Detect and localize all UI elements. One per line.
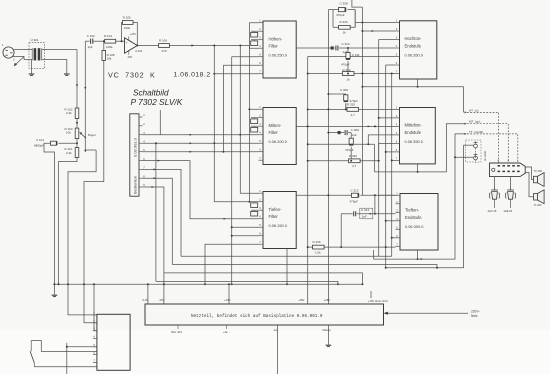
svg-text:470: 470: [162, 49, 167, 53]
resistor R110: [75, 148, 79, 158]
capacitor C308 470uF: [328, 1, 355, 16]
arrow TT: [465, 133, 467, 135]
resistor R326 parallel to C308: [333, 10, 355, 35]
transformer U301 shield dashed box: [29, 43, 45, 69]
socket circle upper: [473, 141, 477, 148]
resistor R336: [307, 240, 342, 254]
riser x231 down to bus: [231, 57, 233, 285]
wire mittelton pin7 stub: [392, 159, 395, 161]
svg-text:R 326: R 326: [340, 20, 348, 24]
svg-text:0.06.250.0: 0.06.250.0: [269, 53, 288, 58]
svg-text:+AL: +AL: [223, 330, 228, 334]
svg-text:+: +: [126, 41, 128, 45]
dashed drop sockets to connector: [475, 148, 477, 163]
power riser x391: [391, 74, 393, 257]
rail -28V x307 vertical: [307, 57, 309, 305]
connector pins dashes: [498, 166, 520, 172]
svg-text:0.06.150.0: 0.06.150.0: [269, 223, 288, 228]
rail +15V y264: [172, 265, 437, 268]
node R102 R103: [76, 119, 78, 129]
wire 220V mains with arrow: [387, 312, 468, 314]
wire leg x374 down to MT out: [374, 144, 376, 172]
connector speaker strip Bu301: [490, 163, 526, 177]
netzteil bottom stub +AL: [226, 325, 228, 329]
svg-text:Endstufe: Endstufe: [405, 44, 422, 49]
ground at transformer primary: [31, 72, 33, 74]
wire connector to transformer primary: [14, 49, 32, 51]
svg-text:HT (rt): HT (rt): [469, 108, 479, 112]
bus 0V horizontal: [54, 283, 362, 285]
rail +28V x328 vertical: [327, 10, 329, 304]
wire R106 to hoehen filter pin4: [170, 46, 259, 49]
wire bus to bottom block pin2: [84, 284, 97, 323]
wire bedienteil pin7 staircase to rail -15V: [143, 169, 182, 256]
wire hochton pin5 row from -28V rail: [308, 56, 395, 58]
transformer U301 windings: [32, 48, 43, 60]
svg-text:-28V: -28V: [299, 298, 305, 302]
wire tiefen pin7 to bus riser: [205, 244, 259, 284]
svg-text:470µF: 470µF: [336, 13, 345, 17]
svg-text:C 101: C 101: [36, 138, 44, 142]
connector Bu101 DIN input socket: [2, 43, 15, 62]
node op-amp output: [136, 45, 138, 47]
wire R110 bottom jog left down to bus: [59, 158, 78, 285]
block Bedienteil 0.03.001.0: [130, 114, 139, 196]
wire output to R106: [137, 45, 158, 47]
node R108 top: [103, 40, 105, 42]
svg-text:4,7: 4,7: [351, 113, 356, 117]
shield arrow at input connector: [14, 57, 24, 67]
bus ground stub: [53, 284, 55, 293]
ground at netzteil Masse: [327, 343, 329, 345]
mitten filter pins 1-7: [259, 105, 264, 160]
wire hochton pin2 row: [362, 30, 395, 32]
svg-text:an Gerät: an Gerät: [483, 151, 487, 161]
svg-text:C 308: C 308: [340, 1, 348, 5]
mitten filter trimmers: [251, 118, 259, 132]
svg-text:TC 250: TC 250: [534, 169, 543, 173]
svg-text:+15V: +15V: [130, 32, 136, 36]
capacitor C102: [90, 39, 92, 44]
wire connector lower pin: [13, 57, 32, 60]
netzteil stub 0V: [147, 284, 149, 304]
wire R108 rail jog left down to bus: [84, 60, 104, 284]
block bottom left: [97, 314, 130, 370]
svg-text:Tiefen-: Tiefen-: [269, 207, 282, 212]
node filter input riser: [239, 45, 241, 47]
block Hoehen-Filter 0.06.250.0: [263, 21, 296, 78]
netzteil bottom wire -AL: [277, 325, 279, 374]
socket circle lower: [473, 153, 477, 160]
mittelton pins 1-7: [395, 105, 400, 160]
resistor R325 on pin1 row: [347, 102, 359, 117]
riser x223 down: [222, 65, 224, 152]
svg-text:470µF: 470µF: [345, 148, 354, 152]
svg-text:TT (ws/bl): TT (ws/bl): [469, 130, 483, 134]
wire tiefen cluster left leg: [340, 214, 342, 247]
rail y272: [164, 273, 363, 284]
riser x249 hoehen pin1 to mitten pin1: [249, 23, 258, 110]
wire junction to C101: [59, 142, 78, 144]
block Tiefton-Endstufe 0.06.300.0: [400, 194, 438, 251]
wire C308 node to hochton pin1: [355, 22, 395, 24]
wire bedienteil pin3 to mitten pin4: [143, 134, 259, 136]
svg-text:Netzteil, befindet sich auf B: Netzteil, befindet sich auf Basisplatine…: [191, 314, 323, 319]
svg-text:C 309: C 309: [351, 128, 359, 132]
arrow MT: [465, 123, 467, 125]
wire riser to mittelton pin4: [368, 135, 395, 144]
wire bedienteil pin5 to mitten pin6: [143, 151, 259, 153]
tiefen filter pins 1-7: [259, 189, 264, 244]
netzteil bottom stub Bat301: [177, 325, 179, 329]
svg-text:+15V Verst. Drtzt: +15V Verst. Drtzt: [368, 299, 388, 303]
svg-text:1k: 1k: [347, 78, 351, 82]
arrow on left rail: [76, 84, 78, 87]
riser x249 mitten to tiefen trimmer row: [248, 109, 250, 202]
wire HT output run: [362, 87, 463, 113]
svg-text:1µF: 1µF: [352, 133, 357, 137]
svg-text:-15V: -15V: [159, 298, 165, 302]
riser x214 signal to tiefen pin2: [214, 46, 251, 202]
resistor R108: [102, 50, 106, 60]
svg-text:Filter: Filter: [269, 130, 279, 135]
resistor R340: [307, 154, 379, 168]
rail x362 vertical: [361, 7, 363, 195]
svg-text:C 311: C 311: [352, 53, 360, 57]
speaker HC capsule left: [489, 188, 499, 208]
resistor R322 on pin7 row: [342, 68, 354, 82]
arrow mitten row: [368, 125, 370, 127]
wire hoehen pin5 to riser x231: [232, 56, 259, 58]
capacitor C101: [51, 141, 57, 145]
svg-text:R 325: R 325: [347, 102, 355, 106]
svg-text:R 105: R 105: [123, 16, 131, 20]
power riser x385: [385, 65, 387, 268]
svg-text:1µF: 1µF: [88, 45, 93, 49]
svg-text:1,5k: 1,5k: [315, 251, 321, 255]
wire hoehen filter output row with C310: [296, 42, 395, 54]
capacitor C306 470uF vertical: [340, 88, 358, 109]
svg-text:2,2k: 2,2k: [66, 151, 72, 155]
rail y281: [156, 281, 338, 284]
node feedback tap: [121, 40, 123, 42]
svg-text:MT (gn): MT (gn): [469, 120, 480, 124]
svg-text:1k: 1k: [343, 31, 347, 35]
wire hochton output down: [417, 79, 419, 87]
svg-text:R 322: R 322: [343, 68, 351, 72]
riser from block corner to rail y281: [155, 143, 157, 281]
op-amp A101: [125, 32, 143, 59]
wire to capacitor C102: [85, 40, 89, 42]
svg-text:4,7: 4,7: [352, 164, 357, 168]
netzteil stub +15V: [228, 284, 230, 304]
capacitor C309 1uF: [327, 128, 359, 137]
netzteil stub -15V: [163, 273, 165, 304]
arrow HT: [465, 111, 467, 113]
wire primary bottom to ground: [31, 60, 33, 72]
wire tiefton pin6 stub: [392, 237, 396, 239]
svg-text:Tiefton-: Tiefton-: [405, 208, 420, 213]
hochton pins 1-7: [395, 19, 400, 74]
ground at transformer secondary: [66, 72, 68, 74]
svg-text:Bedienteil: Bedienteil: [132, 176, 137, 194]
svg-text:R 104: R 104: [104, 34, 112, 38]
wire tiefton pin1 from riser x378: [379, 194, 396, 196]
svg-text:A 101: A 101: [135, 49, 143, 53]
wire R105 to output: [133, 23, 137, 46]
wire bedienteil pin8 staircase to rail +15V: [143, 178, 173, 264]
arrow on signal wire: [191, 44, 194, 46]
wire leg under tiefton: [373, 250, 375, 259]
hoehen filter pins 1-7: [259, 19, 264, 74]
svg-text:R 106: R 106: [159, 39, 167, 43]
wire mitten row2 to mittelton pin4: [308, 143, 375, 145]
wire aux to block pin4: [67, 346, 97, 348]
svg-text:C 310: C 310: [342, 42, 350, 46]
dashed HT to connector: [467, 112, 499, 163]
svg-text:0.03.001.0: 0.03.001.0: [132, 137, 137, 157]
svg-text:Pegel: Pegel: [88, 133, 96, 137]
wire connector down leg 1: [494, 177, 496, 188]
wire hoehen pin6 to riser x223: [223, 64, 258, 66]
svg-text:0.06.350.0: 0.06.350.0: [405, 53, 424, 58]
capacitor C311 470uF vertical: [341, 48, 360, 74]
dashed TT to connector: [467, 134, 518, 163]
capacitor C312 470uF on tiefen output row: [296, 188, 395, 203]
rail masse y267 to speaker riser: [386, 145, 464, 268]
svg-text:100k: 100k: [124, 26, 131, 30]
node tiefen cluster: [340, 246, 342, 248]
speaker TC250: [534, 173, 545, 187]
svg-text:+28V: +28V: [324, 298, 331, 302]
svg-text:Filter: Filter: [269, 44, 279, 49]
leader line below subtitle: [159, 110, 161, 135]
svg-text:Netz: Netz: [471, 314, 478, 318]
svg-text:10k: 10k: [66, 131, 71, 135]
svg-text:470µF: 470µF: [350, 199, 359, 203]
wire bedienteil pin4 to mitten pin5: [143, 142, 259, 144]
block Mitten-Filter 0.06.200.0: [263, 108, 296, 165]
resistor R104: [105, 39, 116, 43]
wire mittelton pin1 row: [308, 108, 395, 110]
svg-text:-15V: -15V: [127, 55, 133, 59]
wire R104 top of R108: [103, 41, 105, 50]
svg-text:C 306: C 306: [340, 88, 348, 92]
svg-text:TL 200: TL 200: [534, 203, 543, 207]
ground at bus: [53, 293, 55, 295]
svg-text:0.06.350.0: 0.06.350.0: [405, 139, 424, 144]
block Mittelton-Endstufe 0.06.350.0: [400, 108, 436, 164]
bottom block pins 1-7: [93, 311, 97, 363]
wire C102 to R104: [93, 40, 105, 42]
wire wiper rail jog to x96: [85, 131, 96, 150]
wire upper socket to masse riser: [464, 144, 474, 146]
svg-text:R 340: R 340: [349, 154, 357, 158]
arrow on TT run: [421, 258, 423, 260]
wire hochton pin3 from riser x378: [379, 39, 395, 41]
wire tiefton pin4 stub: [386, 220, 396, 222]
svg-text:220V~: 220V~: [471, 309, 480, 313]
power riser x378: [378, 40, 380, 257]
wire hochton pin6 row: [386, 64, 395, 66]
svg-text:4HC 25: 4HC 25: [488, 209, 497, 213]
svg-text:C 314: C 314: [361, 208, 369, 212]
wire mitten filter output to mittelton pin3: [296, 125, 395, 127]
block Hochton-Endstufe 0.06.350.0: [400, 21, 437, 79]
svg-text:470µF: 470µF: [341, 63, 350, 67]
wire bus to bottom block pin3: [94, 284, 97, 330]
svg-text:Mitten-: Mitten-: [269, 123, 282, 128]
wire tiefton output down: [417, 250, 419, 259]
wire C306 top row: [328, 93, 340, 95]
riser x240 signal down to tiefen pin1: [240, 46, 258, 194]
arrow tiefen row: [370, 213, 372, 215]
wire TT output run: [374, 134, 465, 259]
svg-text:P 7302 SLV/K: P 7302 SLV/K: [131, 97, 183, 107]
resistor R105: [122, 21, 133, 25]
svg-text:-AL: -AL: [273, 328, 278, 332]
wire tiefen pin5 to riser: [232, 226, 259, 228]
svg-text:Masse: Masse: [323, 328, 332, 332]
wire mittelton output down: [417, 164, 419, 172]
svg-text:10k: 10k: [107, 57, 112, 61]
wire lower socket left: [455, 156, 473, 158]
wire left rail node A down: [76, 50, 78, 109]
svg-text:Höhen-: Höhen-: [269, 37, 283, 42]
wire bus to bottom block pin1: [68, 284, 97, 315]
netzteil bottom Masse stub: [327, 325, 329, 343]
node R103 R110: [76, 139, 78, 148]
wire resistor row to tiefton pin7: [341, 246, 395, 248]
dashed box around sockets: [466, 140, 482, 162]
switch S301: [30, 341, 41, 367]
arrow on C102 rail: [84, 87, 86, 90]
wire mittelton pin6 stub: [386, 151, 395, 153]
wire bedienteil pin9 staircase to rail: [143, 187, 164, 273]
wire x96 rail jog left down to bus: [68, 150, 96, 284]
wire MT output run: [375, 124, 465, 172]
wire C102 rail down: [84, 41, 86, 131]
svg-text:R 336: R 336: [313, 240, 321, 244]
svg-text:Filter: Filter: [269, 214, 279, 219]
wire under tiefen filter to bus: [286, 249, 288, 285]
wire hoehen pin7 to riser x214: [214, 73, 258, 75]
svg-text:4HE 50: 4HE 50: [504, 209, 513, 213]
svg-text:Endstufe: Endstufe: [405, 130, 422, 135]
svg-text:0.06.200.0: 0.06.200.0: [269, 139, 288, 144]
svg-text:Bat. 301: Bat. 301: [172, 330, 183, 334]
tiefen filter trimmers: [251, 202, 259, 216]
riser x378 to mittelton pin5: [379, 143, 395, 160]
trimmer R103 with Pegel label: [65, 127, 96, 139]
riser C312 row to tiefen signal row: [374, 195, 376, 214]
resistor R106: [159, 44, 170, 48]
capacitor C314 1uF: [341, 208, 395, 219]
dashed MT to connector: [467, 124, 508, 163]
wire feedback up: [121, 23, 124, 42]
wire aux riser x66 down: [66, 343, 68, 374]
svg-text:Mittelton-: Mittelton-: [405, 123, 423, 128]
svg-text:Ü 301: Ü 301: [31, 38, 39, 42]
wire connector to upper speaker: [525, 167, 533, 180]
wire switch bottom to block pin7: [34, 366, 97, 368]
bedienteil pins 1-9: [139, 113, 145, 187]
svg-text:Hochton-: Hochton-: [405, 36, 423, 41]
speaker TL200: [534, 190, 545, 204]
riser x378 corner to mittelton pin2: [379, 117, 395, 119]
tiefton pins 1-7: [396, 191, 401, 246]
wire secondary top to node A: [43, 49, 77, 51]
svg-text:100k: 100k: [106, 45, 113, 49]
svg-text:0,0V: 0,0V: [143, 298, 149, 302]
block Netzteil auf Basisplatine: [145, 304, 384, 325]
wire feed from top edge: [352, 0, 363, 7]
wire hochton pin7 row from -28V rail: [308, 73, 395, 75]
netzteil stub aux: [370, 291, 372, 298]
svg-text:1.06.018.2: 1.06.018.2: [174, 72, 211, 79]
svg-text:VC 7302 K: VC 7302 K: [108, 71, 156, 80]
resistor R102: [75, 108, 79, 119]
wire C101 to ground bus: [44, 143, 54, 284]
rail -15V y256: [181, 255, 392, 257]
wire tiefen pin6 to riser: [232, 235, 259, 237]
svg-text:Endstufe: Endstufe: [405, 215, 422, 220]
wire secondary bottom to ground: [43, 60, 67, 72]
capacitor C313 470uF vertical: [345, 133, 354, 161]
wire bedienteil pin6 to tiefen pin4: [143, 161, 259, 219]
hoehen filter trimmers: [251, 31, 259, 45]
speaker HE capsule right: [505, 188, 515, 208]
wire connector down leg 2: [510, 177, 512, 188]
svg-text:2,2k: 2,2k: [66, 111, 72, 115]
wire R104 to op-amp: [116, 40, 125, 42]
wire connector to lower speaker: [525, 173, 533, 197]
connector pin numbers: [498, 160, 520, 163]
svg-text:1µF: 1µF: [362, 215, 367, 219]
svg-text:+15V: +15V: [224, 298, 231, 302]
svg-text:C 312: C 312: [351, 188, 359, 192]
block Tiefen-Filter 0.06.150.0: [263, 192, 296, 249]
svg-text:6800µF: 6800µF: [34, 144, 44, 148]
svg-text:C 102: C 102: [87, 34, 95, 38]
svg-text:0.06.300.0: 0.06.300.0: [405, 224, 424, 229]
wire switch to block pin5: [41, 351, 97, 353]
arrow on C102 rail lower: [84, 150, 86, 153]
wire C306 leg to pin1 row: [345, 108, 347, 110]
